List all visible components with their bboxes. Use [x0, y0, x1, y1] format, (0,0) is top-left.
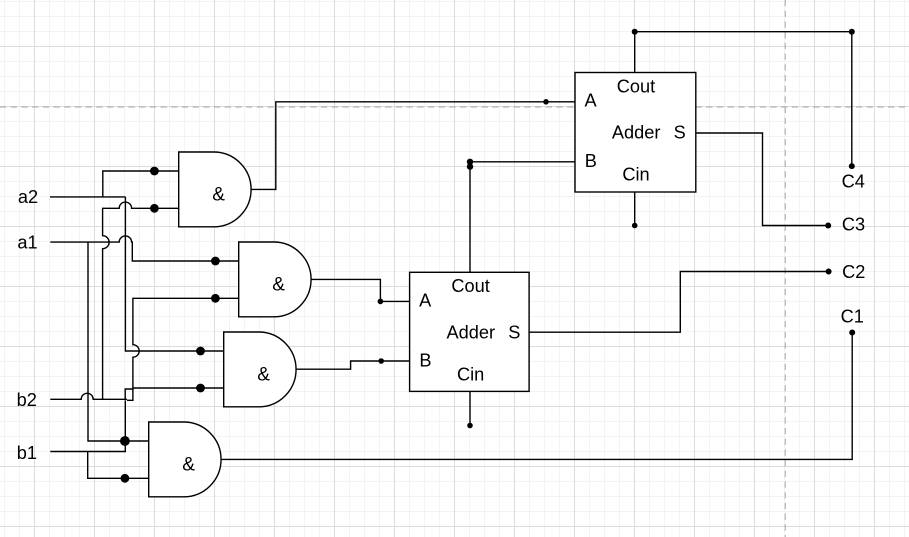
AND gate G4 — [149, 422, 221, 497]
svg-text:&: & — [272, 274, 285, 295]
wire U2 Cin stub — [634, 192, 636, 226]
svg-text:&: & — [257, 364, 270, 385]
junction dot G2 input1 — [211, 257, 220, 266]
svg-text:Adder: Adder — [612, 122, 661, 142]
output label C2 — [842, 262, 865, 282]
svg-text:A: A — [585, 91, 598, 111]
output label C1 — [841, 307, 864, 327]
wire G3 input2 from b2 column — [133, 387, 224, 389]
gate G4 symbol — [182, 454, 195, 475]
node dot U1 A wire — [378, 299, 384, 305]
svg-text:b2: b2 — [17, 390, 37, 410]
svg-text:C2: C2 — [842, 262, 865, 282]
gate G1 symbol — [212, 184, 225, 205]
node dot top rail left — [632, 29, 638, 35]
wire U1 Cin stub — [469, 391, 471, 425]
junction dot G3 input1 — [196, 347, 205, 356]
wire b2-up column to G2 input2 (hops G3 input1 wire) — [125, 298, 239, 399]
adder U2 pin S — [674, 122, 686, 142]
terminal dot C3 — [825, 223, 831, 229]
gate G3 symbol — [257, 364, 270, 385]
page guide dashed horizontal — [0, 106, 909, 108]
AND gate G3 — [224, 332, 296, 407]
adder U1 label Cin — [457, 364, 484, 384]
wire a1 column down to G4 input1 — [88, 242, 149, 441]
svg-text:Cout: Cout — [617, 77, 655, 97]
wire b2 input (hops a1-down column) — [50, 393, 127, 399]
adder U1 label Cout — [451, 276, 489, 296]
node dot U1 Cin end — [467, 423, 473, 429]
page guide dashed vertical — [784, 0, 786, 537]
wire b2 end jog down — [127, 388, 133, 400]
adder U2 pin A — [585, 91, 598, 111]
wire G3 output to adder U1 B — [296, 361, 410, 369]
wire U2 S to C3 — [696, 133, 828, 226]
svg-text:a2: a2 — [18, 187, 38, 207]
junction dot G2 input2 — [211, 294, 220, 303]
wire U1 Cout up to U2 B — [470, 162, 575, 272]
terminal dot C4 — [849, 163, 855, 169]
svg-text:S: S — [508, 322, 520, 342]
wire a2 input — [50, 196, 125, 198]
node dot U2 A wire — [543, 99, 549, 105]
node dot U2 Cin end — [632, 223, 638, 229]
adder U1 label Adder — [447, 322, 496, 342]
adder U1 pin A — [419, 290, 432, 310]
wire b1 input — [50, 441, 125, 452]
svg-text:C3: C3 — [842, 215, 865, 235]
svg-text:&: & — [182, 454, 195, 475]
svg-text:Cout: Cout — [451, 276, 489, 296]
wire U1 S to C2 — [529, 272, 829, 333]
input label a1 — [17, 232, 37, 252]
adder U2 pin B — [585, 151, 597, 171]
svg-text:a1: a1 — [17, 232, 37, 252]
wire b2 column up to G1 input2 (hops a1 line, hops a2-down column) — [103, 202, 179, 399]
adder U2 box — [575, 73, 696, 193]
wire top rail to C4 — [635, 32, 852, 166]
input label a2 — [18, 187, 38, 207]
svg-text:Cin: Cin — [457, 364, 484, 384]
svg-text:A: A — [419, 290, 432, 310]
svg-text:C1: C1 — [841, 307, 864, 327]
AND gate G2 — [239, 242, 311, 317]
svg-text:Adder: Adder — [447, 322, 496, 342]
wire b2 branch down to G4 junction — [124, 400, 126, 441]
node dot U1 Cout corner lower — [467, 163, 473, 169]
svg-text:&: & — [212, 184, 225, 205]
input label b1 — [17, 443, 37, 463]
adder U1 box — [410, 272, 529, 391]
adder U1 pin S — [508, 322, 520, 342]
wire G4 output to C1 — [221, 333, 852, 460]
input label b2 — [17, 390, 37, 410]
adder U2 label Cin — [622, 165, 649, 185]
junction dot G3 input2 — [196, 384, 205, 393]
junction dot G1 input2 — [150, 204, 159, 213]
wire a2 column down to G3 input1 — [125, 197, 223, 351]
node dot top rail right — [849, 29, 855, 35]
output label C4 — [842, 172, 865, 192]
output label C3 — [842, 215, 865, 235]
junction dot G4 input2 — [121, 474, 130, 483]
svg-text:B: B — [585, 151, 597, 171]
svg-text:C4: C4 — [842, 172, 865, 192]
node dot U1 B wire — [378, 358, 384, 364]
terminal dot C1 — [849, 330, 855, 336]
svg-text:Cin: Cin — [622, 165, 649, 185]
wire G1 output to adder U2 A — [251, 102, 575, 190]
wire a2 branch up to G1 input1 — [103, 171, 179, 197]
junction dot G1 input1 — [150, 167, 159, 176]
adder U2 label Adder — [612, 122, 661, 142]
adder U1 pin B — [419, 351, 431, 371]
node dot U1 Cout corner upper — [467, 159, 473, 165]
svg-text:B: B — [419, 351, 431, 371]
junction dot G4 input1 — [120, 436, 130, 446]
svg-text:b1: b1 — [17, 443, 37, 463]
wire U2 Cout up to top rail — [634, 32, 636, 73]
AND gate G1 — [179, 152, 251, 227]
wire a1 input (hops a2-down column, jogs down to G2 input1) — [50, 236, 238, 261]
wire G2 output to adder U1 A — [311, 279, 410, 301]
adder U2 label Cout — [617, 77, 655, 97]
wire b1 branch down to G4 input2 — [88, 452, 149, 479]
terminal dot C2 — [826, 269, 832, 275]
svg-text:S: S — [674, 122, 686, 142]
gate G2 symbol — [272, 274, 285, 295]
